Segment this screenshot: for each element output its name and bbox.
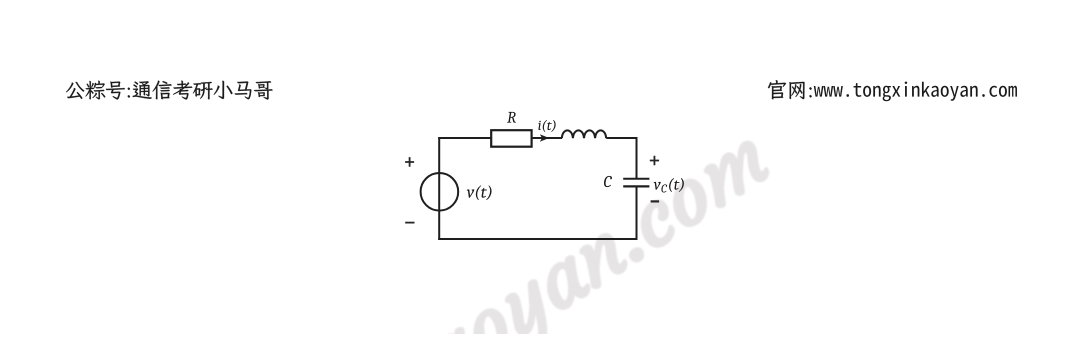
wire: inductor to top-right corner, down to capacitor — [606, 138, 636, 179]
voltage source v(t) circle — [421, 173, 459, 211]
label vC(t) capacitor voltage — [654, 178, 684, 192]
label C (capacitor) — [604, 176, 612, 187]
wire: left vertical branch through source — [438, 137, 440, 240]
capacitor C plates — [623, 179, 649, 187]
resistor R body — [491, 130, 531, 147]
polarity - (capacitor bottom) — [651, 200, 660, 202]
wire: resistor to inductor (current arrow overlaid) — [532, 137, 562, 139]
watermark text tongxinkaoyan.com — [156, 117, 785, 339]
wire: bottom return path — [438, 238, 637, 240]
label i(t) current — [538, 120, 555, 132]
polarity - (source bottom) — [405, 222, 414, 224]
header right: 官网:www.tongxinkaoyan.com — [768, 80, 812, 99]
wire: capacitor to bottom-right corner — [636, 186, 638, 240]
label R (resistor value) — [507, 112, 516, 123]
inductor coil — [562, 130, 606, 138]
polarity + (source top) — [405, 157, 414, 167]
polarity + (capacitor top) — [650, 156, 659, 165]
current arrow i(t) head — [540, 135, 548, 142]
wire: top-left segment from source node to resistor — [439, 137, 491, 138]
label v(t) source voltage — [467, 185, 492, 200]
header left: 公粽号:通信考研小马哥 — [66, 81, 273, 100]
